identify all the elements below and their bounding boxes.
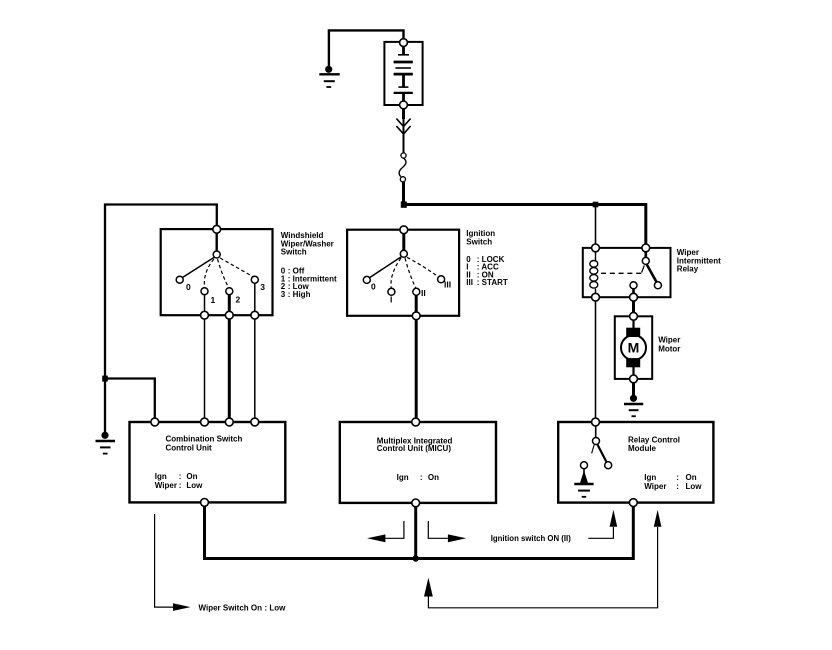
svg-text:Wiper: Wiper — [644, 482, 666, 491]
wire battery to fuse — [402, 109, 405, 119]
ignition switch dashed throws — [391, 257, 438, 288]
pin labels ignition 0 I II III — [371, 280, 451, 305]
value legend wiper switch — [281, 267, 337, 299]
svg-text:Module: Module — [628, 444, 657, 453]
svg-text:On: On — [186, 472, 197, 481]
wire relay coil to relay control module — [595, 301, 597, 418]
svg-text:On: On — [428, 473, 439, 482]
ignition pivot and positions — [400, 250, 407, 257]
wiper switch dashed throws — [204, 258, 252, 288]
ground G2 left rail — [96, 432, 116, 454]
wiper switch arm to position 0 — [183, 257, 215, 277]
relay switch — [634, 252, 657, 295]
wire ignition II down to MICU — [415, 295, 418, 418]
svg-text:: Low: : Low — [265, 604, 287, 613]
motor M1 — [621, 320, 646, 375]
svg-text:Switch: Switch — [466, 237, 492, 246]
svg-text:Relay: Relay — [677, 265, 699, 274]
svg-text:M: M — [628, 340, 640, 356]
junction node bus — [413, 555, 419, 561]
annotation ignition switch ON line and up arrow — [588, 510, 617, 539]
svg-text:Control Unit (MICU): Control Unit (MICU) — [377, 444, 452, 453]
annotation wiper switch on line and right arrow — [155, 514, 191, 611]
battery cells — [394, 46, 413, 101]
ground G3 motor — [624, 395, 643, 417]
svg-text:Low: Low — [186, 481, 203, 490]
svg-text:Control Unit: Control Unit — [166, 443, 213, 452]
wire jog to combination unit — [105, 379, 155, 419]
RCM terminals — [592, 418, 600, 426]
svg-text::: : — [676, 473, 679, 482]
svg-text:I: I — [390, 295, 392, 305]
svg-text:III: III — [444, 280, 451, 290]
wire relay coil branch — [595, 205, 597, 245]
wire motor to ground — [632, 383, 635, 397]
svg-text:: High: : High — [288, 290, 311, 299]
svg-text:Ign: Ign — [155, 472, 167, 481]
switch contact circles — [176, 250, 661, 468]
svg-text:III: III — [466, 278, 473, 287]
svg-text:0: 0 — [371, 281, 376, 291]
svg-text:Wiper: Wiper — [658, 336, 680, 345]
ignition switch arm to position 0 — [370, 257, 402, 278]
fuse F1 — [399, 153, 406, 182]
label wiper motor — [658, 336, 680, 354]
combination switch control unit box — [130, 422, 286, 502]
junction node battery feed — [401, 201, 407, 207]
label ignition switch — [466, 229, 495, 246]
svg-text:: START: : START — [477, 278, 508, 287]
wire fuse to main node — [402, 182, 405, 205]
label multiplex integrated control unit — [377, 436, 453, 481]
label windshield wiper/washer switch — [281, 231, 334, 257]
combination unit terminals — [151, 418, 159, 426]
svg-text::: : — [676, 482, 679, 491]
battery terminals — [400, 39, 408, 47]
wiper switch box terminals — [213, 225, 221, 233]
svg-text:Ignition switch ON (II): Ignition switch ON (II) — [491, 534, 572, 543]
svg-text:2: 2 — [236, 295, 241, 305]
svg-text:Switch: Switch — [281, 248, 307, 257]
wire MICU drop to bus — [414, 507, 417, 559]
annotation arrow right at MICU — [428, 521, 466, 542]
multiplex integrated control unit box — [340, 422, 496, 503]
svg-text:3: 3 — [281, 290, 286, 299]
motor box terminals — [630, 312, 638, 320]
wire ignition common — [402, 234, 405, 250]
svg-text::: : — [420, 473, 423, 482]
relay box terminals — [592, 244, 600, 252]
wire main feed to relay branch — [404, 205, 646, 248]
svg-text:Motor: Motor — [658, 345, 680, 354]
ignition switch box terminals — [400, 226, 408, 234]
windshield wiper/washer switch box — [161, 229, 273, 315]
svg-text:0: 0 — [186, 282, 191, 292]
svg-text:Wiper: Wiper — [155, 481, 177, 490]
value legend ignition switch — [466, 255, 508, 287]
label combination switch control unit — [155, 435, 243, 491]
svg-text:Ign: Ign — [397, 473, 409, 482]
junction node relay coil tap — [593, 202, 599, 208]
svg-text:Wiper Switch On: Wiper Switch On — [199, 604, 263, 613]
svg-text:On: On — [686, 473, 697, 482]
RCM internal switch — [592, 426, 607, 463]
RCM ground with arrow — [574, 469, 593, 497]
relay dashed actuation line — [601, 272, 642, 274]
terminal circles — [151, 39, 650, 507]
svg-text:1: 1 — [211, 295, 216, 305]
label wiper switch on : low — [199, 604, 287, 613]
RCM switch contacts — [593, 438, 600, 445]
wire bottom bus — [205, 506, 634, 558]
ground G1 top-left — [319, 66, 339, 87]
svg-text::: : — [179, 472, 182, 481]
wiper motor box — [615, 316, 652, 379]
battery box — [384, 42, 422, 105]
MICU terminals — [412, 418, 420, 426]
label wiper intermittent relay — [677, 248, 721, 273]
svg-text:II: II — [421, 288, 426, 298]
annotation long feedback path with up arrows — [424, 510, 661, 608]
relay switch contacts — [642, 257, 649, 264]
wire wiper position 1 down — [204, 295, 206, 418]
wire switch common — [215, 233, 217, 251]
wiper intermittent relay box — [583, 248, 671, 297]
svg-text:Combination Switch: Combination Switch — [166, 435, 243, 444]
svg-text::: : — [179, 481, 182, 490]
wire wiper position 2 down (active low) — [228, 295, 231, 418]
wiper switch pivot and positions 0-3 — [213, 251, 220, 258]
pin labels wiper switch 0 1 2 3 — [186, 282, 265, 305]
ignition switch box — [347, 230, 459, 316]
wire left ground rail — [105, 205, 217, 433]
relay coil — [590, 252, 598, 293]
junction node left rail — [102, 376, 108, 382]
svg-text:Ign: Ign — [644, 473, 656, 482]
wire wiper position 3 down — [254, 283, 256, 418]
wire relay to motor — [632, 301, 635, 313]
svg-text:3: 3 — [260, 282, 265, 292]
flow arrow chevrons — [396, 119, 410, 135]
wire battery top to ground — [329, 30, 404, 66]
relay control module box — [558, 422, 713, 503]
annotation arrow left at MICU — [367, 521, 404, 542]
svg-text:Low: Low — [686, 482, 703, 491]
label relay control module — [628, 435, 702, 491]
